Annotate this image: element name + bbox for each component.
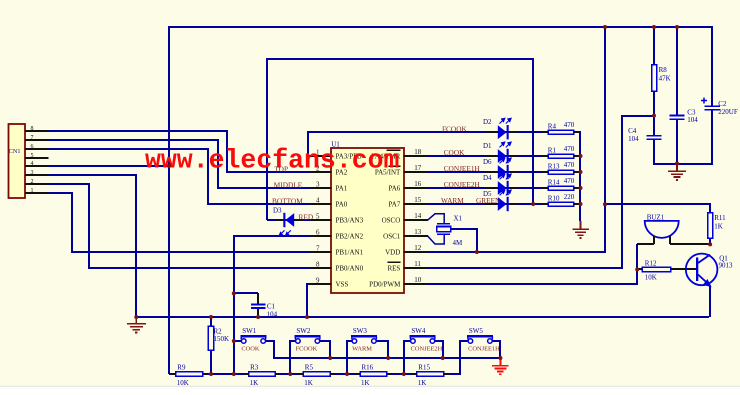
svg-text:16: 16 [414,180,422,188]
svg-text:17: 17 [414,164,422,172]
ground for LED resistors [572,221,589,238]
wire OSCO jog to crystal X1 top [427,214,444,224]
resistor R11 [708,213,713,239]
BUZ1 left leg horizontal [637,243,654,245]
svg-text:R10: R10 [548,194,560,202]
R14 right stub [574,187,580,189]
svg-text:470: 470 [564,145,575,153]
svg-text:10: 10 [414,276,422,284]
wire OSCO stub join [427,219,428,221]
junction PWM / R12 / buzzer leg [635,267,639,271]
wire cap bottom rail C4-C3-C2 [654,110,712,164]
resistor R2 [208,326,213,350]
junction VDD rail / right vertical [603,25,607,29]
C1 top stem [257,293,259,304]
svg-text:SW4: SW4 [411,327,426,335]
R9 right stub [203,373,208,375]
svg-text:D4: D4 [483,174,492,182]
svg-text:14: 14 [414,212,422,220]
LED D5 [498,197,507,211]
svg-text:10K: 10K [645,274,657,282]
svg-text:13: 13 [414,228,422,236]
svg-text:4: 4 [31,161,34,167]
resistor R16 [360,372,387,377]
switch SW1 [241,336,267,343]
wire R8 top stem from VDD rail [653,27,655,65]
U1 right pin stubs 18-10 [404,156,429,284]
wire CN1-7 to U1 pin3 MIDDLE [48,140,311,188]
svg-text:470: 470 [564,121,575,129]
junction R8 bottom / C4 / RES branch [652,114,656,118]
transistor Q1 9013 [686,254,718,288]
svg-text:PA0: PA0 [336,201,348,209]
LED D1 [498,149,507,163]
resistor R13 [548,170,573,174]
connector CN1 [9,124,26,198]
svg-text:470: 470 [564,161,575,169]
wire CN1-3 down to ground bus [48,175,136,317]
wire U1 pin1 PA3 up and over to FCOOK LED row [308,132,485,156]
junction ground bus left / CN1-3 [134,315,138,319]
R15 left stub [412,373,417,375]
svg-text:PA7: PA7 [388,201,400,209]
svg-text:TOP: TOP [274,164,288,173]
LED D2 [498,125,507,139]
junction common line / SW3 right [386,356,390,360]
wire ground bus (VSS rail) [135,316,709,318]
ground at bus left end [127,317,146,333]
D4 cathode stub [509,187,518,189]
BUZ1 left leg [653,236,655,244]
R5 left stub [298,373,303,375]
junction VDD vertical / R11 branch [603,202,607,206]
R16 right stub [387,373,392,375]
junction ladder bus / R2 bottom [209,372,213,376]
op-amp U1 microcontroller body [331,148,404,293]
svg-text:D1: D1 [483,142,492,150]
svg-text:7: 7 [316,245,320,253]
R10 left stub [542,203,548,205]
svg-text:5: 5 [316,213,320,221]
svg-text:8: 8 [31,126,34,132]
wire U1 pin10 PD0/PWM up to R12 node [428,269,637,284]
D3 cathode stub [276,219,283,221]
wire COOK row from U1 to LED/resistor [428,155,580,157]
svg-text:15: 15 [414,196,422,204]
LED D6 [498,165,507,179]
svg-text:CONJEE1H: CONJEE1H [444,164,481,173]
wire RES net: R8/C4 node to U1 pin 11 [428,116,654,268]
buzzer BUZ1 [645,221,679,238]
svg-text:R13: R13 [548,162,560,170]
svg-text:2: 2 [31,179,34,185]
wire net D3 cathode up-over to WARM/GREEN row [267,59,533,220]
wire U1 pin9 VSS down to ground bus [307,284,311,317]
U1 left pin names [336,153,364,289]
svg-text:R14: R14 [548,178,560,186]
D5 emission arrows [500,190,512,195]
svg-text:R3: R3 [250,364,259,372]
junction ground bus / C1 [256,315,260,319]
crystal X1 4M [437,224,451,235]
svg-text:D2: D2 [483,118,492,126]
svg-text:MIDDLE: MIDDLE [274,181,303,190]
wire U1 pin6 PB2/AN2 keypad vertical [234,236,311,374]
svg-text:WARM: WARM [441,196,464,205]
U1 left pin stubs 1-9 [310,156,332,284]
svg-text:SW5: SW5 [469,327,484,335]
wire WARM row from U1 to LED/resistor [428,203,580,205]
R5 right stub [330,373,335,375]
svg-text:6: 6 [31,144,34,150]
R13 left stub [542,171,548,173]
ground at SW5 (red) [492,358,509,374]
wire VDD branch to R11 top [605,204,710,212]
svg-text:VSS: VSS [336,281,349,289]
D5 cathode stub [509,203,518,205]
wire Q1 emitter down to ground bus [709,286,711,317]
junction VDD rail / R8 [652,25,656,29]
svg-text:R5: R5 [305,364,314,372]
switch SW5 [467,336,493,343]
wire SW2 right contact to common line [320,341,330,358]
svg-text:1K: 1K [714,223,723,231]
svg-text:C1: C1 [267,303,276,311]
wire C3 bottom stem [676,119,678,164]
svg-text:R12: R12 [645,259,657,267]
wire R2 bottom stem to keypad ladder bus [210,350,212,374]
junction AN2 vertical / C1 branch [232,291,236,295]
svg-text:CN1: CN1 [9,148,21,155]
D3 emission arrows [279,230,291,235]
capacitor C3 [670,116,685,120]
svg-text:RES: RES [387,265,400,273]
svg-text:R15: R15 [418,364,430,372]
wire SW1 right contact to switch common line [266,341,500,358]
svg-text:9: 9 [316,277,320,285]
wire CN1-8 to U1 pin2 TOP [48,131,311,172]
switch SW2 [295,336,321,343]
wire CN1-6 to U1 pin4 BOTTOM [48,149,311,204]
svg-text:COOK: COOK [444,148,465,157]
resistor R14 [548,186,573,190]
R15 right stub [444,373,449,375]
svg-text:4: 4 [316,197,320,205]
junction CN1-4 / VDD vertical [167,164,171,168]
R10 right stub [574,203,580,205]
svg-text:D3: D3 [273,207,282,215]
svg-text:COOK: COOK [241,346,259,353]
wire VDD right vertical down to U1 pin 12 VDD [428,27,605,252]
wire CONJEE1H row from U1 to LED/resistor [428,171,580,173]
wire CN1-1 to U1 pin7 PB1/AN1 [48,193,311,252]
R9 left stub [171,373,176,375]
svg-text:220: 220 [564,193,575,201]
svg-text:6: 6 [316,229,320,237]
junction AN2 vertical / SW1 left [232,339,236,343]
svg-text:CONJEE2H: CONJEE2H [411,346,443,353]
capacitor C1 [251,304,266,308]
svg-text:FCOOK: FCOOK [442,124,467,133]
svg-text:SW3: SW3 [353,327,368,335]
junction common line / SW4 right [441,356,445,360]
junction R11 / buzzer / Q1 collector [708,242,712,246]
svg-text:RED: RED [299,212,314,221]
switch SW4 [410,336,436,343]
svg-text:WARM: WARM [352,346,372,353]
svg-text:150K: 150K [214,335,230,343]
svg-text:1: 1 [31,188,34,194]
svg-text:CONJEE1H: CONJEE1H [468,346,500,353]
junction common line / SW2 right [328,356,332,360]
svg-text:104: 104 [628,135,639,143]
svg-text:OSC1: OSC1 [383,233,401,241]
wire CN1-4 to VDD vertical [48,165,169,167]
D2 cathode stub [509,131,518,133]
svg-text:3: 3 [31,170,34,176]
svg-text:8: 8 [316,261,320,269]
junction R13 / LED ground vertical [579,170,583,174]
R12 left stub [637,268,642,270]
svg-text:PD0/PWM: PD0/PWM [369,281,401,289]
wire U1 pin5 RED row through D3 [267,219,311,221]
D2 anode stub [485,131,498,133]
wire FCOOK row through D2/R4 and LED ground vertical [485,132,580,221]
U1 right pin names [369,150,401,289]
wire SW5 right contact down to ground [492,341,500,358]
svg-text:www.elecfans.com: www.elecfans.com [145,145,399,175]
D1 anode stub [485,155,498,157]
wire R11 bottom to collector node [709,238,711,244]
wire crystal right branch down to VDD row [451,229,477,252]
LED D4 [498,181,507,195]
svg-text:SW2: SW2 [296,327,311,335]
resistor R10 [548,202,573,206]
junction ground bus / VSS [305,315,309,319]
D2 emission arrows [500,118,512,123]
R4 left stub [542,131,548,133]
wire C1 top branch [234,292,258,294]
D5 anode stub [485,203,498,205]
svg-text:X1: X1 [454,215,463,223]
junction ground bus / R2 [209,315,213,319]
junction R14 / LED ground vertical [579,186,583,190]
R3 left stub [244,373,249,375]
svg-text:R1: R1 [548,146,557,154]
junction line-B / WARM row [531,202,535,206]
svg-text:D6: D6 [483,158,492,166]
svg-text:5: 5 [31,153,34,159]
wire OSC1 jog to crystal X1 bottom [427,234,444,244]
D6 emission arrows [500,158,512,163]
svg-text:SW1: SW1 [242,327,257,335]
wire R2 top stem from ground bus [210,317,212,326]
junction crystal branch / VDD row [475,250,479,254]
junction VDD rail / C3 [675,25,679,29]
wire SW1 left contact to AN2 vertical [234,340,241,342]
svg-text:VDD: VDD [385,249,400,257]
svg-text:R8: R8 [659,66,668,74]
D1 emission arrows [500,142,512,147]
resistor R9 [176,372,203,377]
wire SW3 right contact to common line [376,341,388,358]
svg-text:PB1/AN1: PB1/AN1 [336,249,364,257]
CN1 pin stubs and numbers [25,126,48,194]
wire C4 top stem [653,116,655,136]
R12 right stub to Q1 base [671,268,696,270]
wire C3 top stem from VDD rail [676,27,678,116]
D3 anode stub [294,219,303,221]
wire SW3 left contact to ladder tap [347,341,352,374]
wire CN1-2 to U1 pin8 PB0/AN0 [48,184,311,268]
junction ladder bus / AN2 vertical [232,372,236,376]
wire R8 bottom to node [653,91,655,116]
svg-text:PB0/AN0: PB0/AN0 [336,265,364,273]
D6 cathode stub [509,171,518,173]
wire VDD rail: top line A with left drop to R9 and right drop to C2 [169,27,712,374]
svg-text:C2: C2 [718,100,727,108]
capacitor C4 [647,136,662,140]
capacitor C2 electrolytic [704,106,720,110]
BUZ1 right leg horizontal to collector node [670,243,710,245]
wire C1 bottom stem to ground bus [257,308,259,317]
svg-text:9013: 9013 [719,262,734,270]
junction cap rail / ground [675,162,679,166]
resistor R3 [249,372,276,377]
R1 left stub [542,155,548,157]
BUZ1 right leg [669,236,671,244]
svg-text:R16: R16 [362,364,374,372]
svg-text:4M: 4M [453,239,464,247]
wire SW4 left contact to ladder tap [404,341,410,374]
svg-text:R9: R9 [177,364,186,372]
svg-text:BOTTOM: BOTTOM [272,196,303,205]
wire SW4 right contact to common line [435,341,443,358]
junction R1 / LED ground vertical [579,154,583,158]
U1 pin numbers [316,148,422,284]
resistor R4 [548,130,573,134]
svg-text:3: 3 [316,181,320,189]
D6 anode stub [485,171,498,173]
junction ladder bus / SW2 tap [288,372,292,376]
D4 anode stub [485,187,498,189]
wire CONJEE2H row from U1 to LED/resistor [428,187,580,189]
svg-text:GREEN: GREEN [476,196,501,205]
svg-text:PB3/AN3: PB3/AN3 [336,217,364,225]
svg-text:PA6: PA6 [388,185,400,193]
R14 left stub [542,187,548,189]
svg-text:220UF: 220UF [718,108,738,116]
resistor R5 [303,372,330,377]
svg-text:11: 11 [414,260,421,268]
svg-text:47K: 47K [659,75,671,83]
svg-text:BUZ1: BUZ1 [647,213,665,221]
LED D3 (RED) [285,213,294,227]
svg-text:470: 470 [564,177,575,185]
D1 cathode stub [509,155,518,157]
svg-text:104: 104 [687,116,698,124]
bottom edge strip [0,386,740,390]
svg-text:R11: R11 [714,214,726,222]
R3 right stub [275,373,280,375]
wire keypad resistor ladder bus to SW5 left [169,341,468,374]
switch SW3 [351,336,377,343]
svg-text:PB2/AN2: PB2/AN2 [336,233,364,241]
wire SW2 left contact to ladder tap [290,341,296,374]
junction ladder bus / SW4 tap [402,372,406,376]
resistor R15 [417,372,444,377]
wire buzzer left leg down to R12 node [636,244,638,269]
D4 emission arrows [500,174,512,179]
svg-text:CONJEE2H: CONJEE2H [444,180,481,189]
R16 left stub [355,373,360,375]
C2 plus sign [701,98,707,104]
svg-text:PA1: PA1 [336,185,348,193]
svg-text:FCOOK: FCOOK [296,346,318,353]
svg-text:OSCO: OSCO [382,217,401,225]
svg-text:C4: C4 [628,127,637,135]
resistor R8 [652,65,657,91]
resistor R1 [548,154,573,158]
svg-text:18: 18 [414,148,422,156]
junction ladder bus / SW3 tap [345,372,349,376]
R4 right stub [574,131,580,133]
svg-text:104: 104 [267,310,278,318]
junction R10 / LED ground vertical [579,202,583,206]
svg-text:R4: R4 [548,123,557,131]
svg-text:12: 12 [414,244,422,252]
ground for capacitor rail [668,164,686,180]
junction common line / SW5 right / ground [498,356,502,360]
R1 right stub [574,155,580,157]
R13 right stub [574,171,580,173]
resistor R12 body [642,267,671,272]
svg-text:7: 7 [31,135,34,141]
